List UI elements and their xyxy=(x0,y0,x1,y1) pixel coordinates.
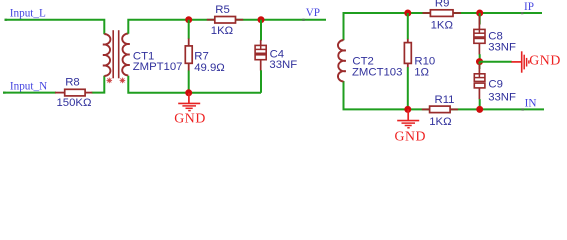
ground GND bottom power port xyxy=(397,109,419,127)
svg-text:Input_N: Input_N xyxy=(10,80,47,92)
junction node between C8 and C9 xyxy=(476,58,483,65)
wire junction to side ground xyxy=(480,61,512,63)
wire CT2 top to IP xyxy=(344,13,543,40)
polarity asterisk CT1 secondary xyxy=(120,78,126,84)
node anchor tick Input_L xyxy=(5,19,8,21)
capacitor C9 xyxy=(474,62,485,110)
resistor R8 xyxy=(55,89,92,96)
junction node at C4 top xyxy=(258,16,265,23)
svg-text:R5: R5 xyxy=(215,4,230,16)
wire CT2 bottom rail to IN xyxy=(344,81,545,109)
svg-text:150KΩ: 150KΩ xyxy=(57,97,92,109)
node anchor tick Input_N xyxy=(3,92,6,94)
svg-text:1KΩ: 1KΩ xyxy=(211,25,233,37)
svg-text:C9: C9 xyxy=(488,79,503,91)
svg-text:R11: R11 xyxy=(435,94,455,106)
junction node at R10 top xyxy=(404,10,411,17)
resistor R10 xyxy=(404,13,411,109)
junction node at R10 bottom xyxy=(404,106,411,113)
svg-text:R9: R9 xyxy=(435,0,450,10)
wire CT1 secondary bottom to ground rail xyxy=(128,76,261,93)
svg-text:Input_L: Input_L xyxy=(10,7,46,19)
capacitor C8 xyxy=(474,13,485,62)
svg-text:33NF: 33NF xyxy=(488,42,516,54)
junction node at R7 top xyxy=(185,16,192,23)
resistor R11 xyxy=(422,106,458,113)
resistor R9 xyxy=(423,10,461,17)
wire CT1 secondary top to VP xyxy=(128,20,326,34)
svg-text:IP: IP xyxy=(524,1,534,13)
transformer CT1 core xyxy=(113,30,119,78)
transformer CT1 primary winding xyxy=(103,34,111,76)
svg-text:GND: GND xyxy=(174,110,206,125)
svg-text:1KΩ: 1KΩ xyxy=(429,116,451,128)
svg-text:R8: R8 xyxy=(65,76,80,88)
junction node at ground rail xyxy=(185,89,192,96)
junction node at C9 bottom xyxy=(476,106,483,113)
svg-text:VP: VP xyxy=(306,7,320,19)
transformer CT1 secondary winding xyxy=(122,34,130,76)
svg-text:1KΩ: 1KΩ xyxy=(431,19,453,31)
resistor R5 xyxy=(207,17,243,24)
svg-text:33NF: 33NF xyxy=(269,59,297,71)
svg-text:IN: IN xyxy=(525,98,537,110)
wire R8 to CT1 primary bottom xyxy=(92,76,105,93)
svg-text:GND: GND xyxy=(529,53,561,68)
svg-text:ZMCT103: ZMCT103 xyxy=(352,66,402,78)
svg-text:R7: R7 xyxy=(194,51,209,63)
wire Input_L to CT1 primary top xyxy=(5,20,105,35)
svg-text:33NF: 33NF xyxy=(488,92,516,104)
svg-text:GND: GND xyxy=(395,128,427,143)
transformer CT2 winding xyxy=(338,40,346,82)
capacitor C4 xyxy=(255,20,266,93)
node anchor tick IP xyxy=(521,12,523,14)
svg-text:49.9Ω: 49.9Ω xyxy=(194,62,225,74)
resistor R7 xyxy=(185,20,192,93)
node anchor tick VP xyxy=(302,19,304,21)
svg-text:1Ω: 1Ω xyxy=(414,67,429,79)
ground GND right power port xyxy=(511,51,529,72)
node anchor tick IN xyxy=(522,108,524,110)
wire Input_N to R8 xyxy=(3,92,56,94)
ground GND left power port xyxy=(178,93,200,111)
svg-text:C8: C8 xyxy=(488,30,503,42)
junction node at C8 top xyxy=(476,10,483,17)
svg-text:ZMPT107: ZMPT107 xyxy=(133,61,183,73)
polarity asterisk CT1 primary xyxy=(107,78,113,84)
